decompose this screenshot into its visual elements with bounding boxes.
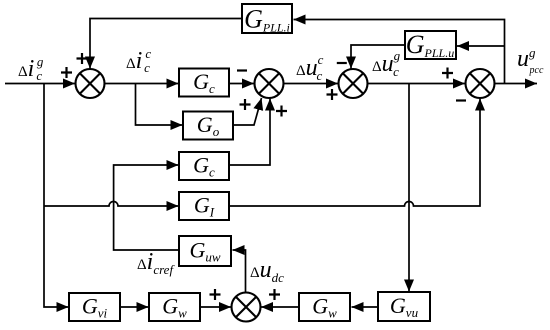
wire S2 output to S3 bbox=[284, 83, 339, 85]
wire GwR output to S4 bbox=[261, 306, 299, 308]
svg-text:Δudc: Δudc bbox=[250, 257, 284, 285]
wire GwL output to S4 bbox=[200, 306, 231, 308]
wire input branch down to Gvi bbox=[44, 84, 69, 308]
box Gvu bbox=[378, 292, 430, 321]
wire Gvi output to GwL bbox=[120, 306, 149, 308]
sign plus S1 left bbox=[61, 67, 72, 78]
wire S4 output up to Guw bbox=[233, 250, 246, 293]
summer S2 bbox=[255, 69, 284, 98]
wire feedback up to GPLLi bbox=[294, 20, 505, 84]
sign plus S4 left bbox=[210, 289, 221, 300]
svg-text:Δicc: Δicc bbox=[126, 46, 151, 75]
sign plus S2 lower left bbox=[240, 99, 251, 110]
wire Gvu output to GwR bbox=[352, 306, 379, 308]
wire Go output diagonal to S2 bbox=[233, 98, 262, 125]
box Gvi bbox=[69, 293, 120, 321]
summer S3 bbox=[339, 69, 368, 98]
svg-text:Δucc: Δucc bbox=[296, 52, 324, 83]
sign minus S5 bottom bbox=[456, 99, 466, 101]
box Guw bbox=[179, 236, 231, 266]
summer S1 bbox=[76, 69, 105, 98]
box GwR bbox=[299, 293, 350, 321]
sign minus S2 bbox=[237, 69, 247, 71]
sign plus S4 right bbox=[269, 289, 280, 300]
box GPLLi bbox=[242, 4, 292, 33]
sign minus S3 top bbox=[337, 62, 347, 64]
box GI bbox=[179, 192, 229, 220]
wire Gc2 output up to S2 bbox=[229, 99, 270, 166]
wire S5 output upcc bbox=[495, 83, 538, 85]
summer S4 bbox=[232, 293, 261, 322]
wire S3 output to S5 bbox=[368, 83, 466, 85]
wire Gc1 output to S2 bbox=[229, 83, 254, 85]
wire GI output with hop up to S5 bbox=[229, 99, 480, 207]
svg-text:ugpcc: ugpcc bbox=[517, 45, 544, 76]
sign plus S1 top bbox=[77, 53, 88, 64]
box GwL bbox=[149, 293, 200, 321]
box Gc2 bbox=[179, 152, 229, 180]
box GPLLu bbox=[405, 31, 456, 59]
svg-text:Δicref: Δicref bbox=[137, 249, 175, 277]
summer S5 bbox=[466, 69, 495, 98]
wire GPLLi output to summer S1 bbox=[90, 19, 242, 69]
box Go bbox=[183, 112, 233, 140]
sign plus S3 left bbox=[327, 89, 338, 100]
wire GPLLu output down to S3 bbox=[351, 45, 405, 69]
wire branch to Go bbox=[136, 84, 183, 126]
box Gc1 bbox=[179, 69, 229, 97]
wire GI input with hop bbox=[44, 202, 179, 207]
wire Guw output up to Gc2 input bbox=[114, 165, 179, 250]
svg-text:Δigc: Δigc bbox=[18, 54, 44, 83]
wire input line bbox=[5, 83, 75, 85]
sign plus S2 bottom bbox=[276, 106, 287, 117]
wire S1 output to Gc1 bbox=[105, 83, 179, 85]
sign plus S5 left bbox=[442, 68, 453, 79]
wire feedback to GPLLu bbox=[457, 45, 505, 47]
svg-text:Δugc: Δugc bbox=[372, 48, 401, 79]
wire tap down to Gvu bbox=[408, 84, 410, 292]
